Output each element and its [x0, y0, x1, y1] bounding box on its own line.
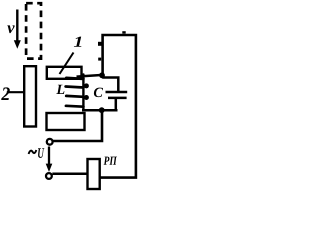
ink speck on vertical wire (lower) [98, 58, 101, 61]
coil top wire [77, 75, 104, 77]
wire bottom terminal to relay [52, 173, 88, 176]
core bottom bar [47, 113, 85, 130]
junction B [99, 107, 105, 113]
screen plate 2 [24, 66, 36, 126]
core top bar [47, 67, 82, 79]
label 2 [1, 87, 10, 100]
wire to source top terminal [53, 110, 102, 141]
tank bottom wire [82, 109, 118, 112]
label ~U [29, 150, 37, 154]
label 1 [74, 37, 82, 47]
ink speck on vertical wire (upper) [98, 42, 102, 46]
label RP [104, 157, 117, 165]
junction A [99, 72, 105, 78]
capacitor C branch [102, 78, 127, 111]
moving plate (dashed outline position) [26, 3, 41, 58]
velocity arrow [14, 10, 21, 49]
leader line for 2 [7, 91, 24, 93]
label v [7, 25, 14, 33]
label C [94, 88, 103, 98]
source bottom terminal [46, 173, 52, 179]
source voltage arrow [46, 147, 53, 173]
ink speck above top wire [122, 31, 125, 33]
source top terminal [47, 139, 53, 145]
label L [56, 85, 64, 94]
coil L winding [66, 75, 89, 111]
leader line for 1 [60, 53, 74, 75]
relay RP box [88, 159, 100, 189]
wire loop to relay (up, right, down) [100, 35, 136, 178]
